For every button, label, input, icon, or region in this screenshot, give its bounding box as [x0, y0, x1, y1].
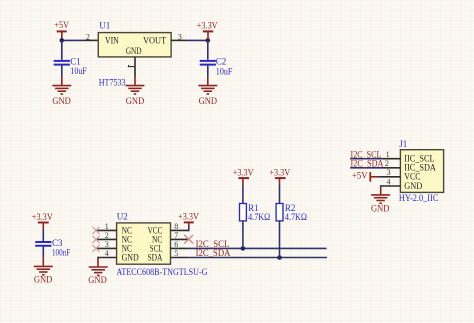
- svg-text:2: 2: [86, 32, 90, 41]
- svg-text:3: 3: [387, 168, 391, 177]
- no-connect X pin 2: [92, 236, 99, 243]
- svg-text:+3.3V: +3.3V: [233, 168, 254, 178]
- svg-text:HY-2.0_IIC: HY-2.0_IIC: [399, 193, 439, 203]
- pin 5 stub (U2 SDA): [171, 257, 189, 259]
- svg-text:GND: GND: [404, 181, 422, 191]
- svg-text:C2: C2: [216, 56, 227, 66]
- svg-text:10uF: 10uF: [216, 66, 233, 76]
- no-connect X pin 3: [92, 245, 99, 252]
- svg-text:1: 1: [386, 150, 390, 159]
- junction R2/SDA: [277, 255, 282, 260]
- wire U1 VOUT to +3.3V node: [171, 39, 187, 41]
- svg-text:SDA: SDA: [148, 252, 163, 262]
- wire net I2C_SCL (J1 pin1): [350, 158, 383, 160]
- svg-text:GND: GND: [52, 96, 71, 106]
- pin number 1 (U1 GND, rotated): [128, 65, 135, 67]
- connector J1 body: [400, 150, 443, 193]
- svg-text:GND: GND: [88, 275, 107, 285]
- wire +5V to J1 pin3: [378, 176, 383, 178]
- resistor R1: [240, 204, 247, 221]
- wire +3.3V to R2: [279, 184, 281, 203]
- wire J1 pin4 down: [380, 185, 382, 188]
- ground (C3): [34, 258, 53, 285]
- pin 1 stub (U2 NC): [97, 229, 116, 231]
- svg-text:2: 2: [385, 159, 389, 168]
- wire +5V node to U1 VIN: [62, 39, 83, 41]
- svg-text:+5V: +5V: [54, 20, 69, 30]
- wire net I2C_SDA: [189, 257, 327, 259]
- junction +5V/C1: [60, 38, 65, 43]
- pin 6 stub (U2 SCL): [171, 247, 189, 249]
- no-connect X pin 7: [184, 235, 193, 244]
- svg-text:10uF: 10uF: [70, 66, 87, 76]
- wire C1 to GND: [61, 65, 63, 77]
- pin 4 stub (J1 GND): [381, 185, 401, 187]
- svg-text:+3.3V: +3.3V: [32, 212, 53, 222]
- ground (C2): [198, 77, 217, 106]
- svg-text:7: 7: [174, 231, 178, 240]
- svg-text:3: 3: [105, 240, 109, 249]
- svg-text:+3.3V: +3.3V: [197, 20, 218, 30]
- pin 4 stub (U2 GND): [98, 257, 117, 259]
- power +3.3V (top): [197, 20, 218, 40]
- junction R1/SCL: [241, 246, 246, 251]
- svg-text:+3.3V: +3.3V: [178, 212, 199, 222]
- capacitor C3: [35, 242, 51, 246]
- power +3.3V (R2): [269, 168, 290, 185]
- svg-text:4.7KΩ: 4.7KΩ: [248, 212, 270, 222]
- wire net I2C_SDA (J1 pin2): [350, 167, 383, 169]
- wire R2 to SDA: [279, 221, 281, 258]
- svg-text:+3.3V: +3.3V: [269, 168, 290, 178]
- pin 2 stub (U2 NC): [97, 238, 116, 240]
- svg-text:HT7533: HT7533: [99, 78, 126, 88]
- capacitor C1: [54, 61, 70, 65]
- wire +3.3V to C3: [42, 229, 44, 241]
- wire C2 to GND: [207, 65, 209, 77]
- svg-text:100nF: 100nF: [52, 247, 70, 257]
- svg-text:U2: U2: [117, 212, 128, 222]
- power +5V (J1 pin3): [352, 171, 378, 182]
- wire C3 to GND: [42, 246, 44, 257]
- capacitor C2: [200, 61, 216, 65]
- pin 3 stub (U2 NC): [97, 247, 116, 249]
- power +5V (top left): [54, 20, 69, 40]
- wire +3.3V to R1: [242, 184, 244, 203]
- wire U2 pin4 to GND: [97, 257, 99, 259]
- ground (J1): [371, 187, 390, 214]
- svg-text:4: 4: [387, 177, 391, 186]
- wire R1 to SCL: [242, 221, 244, 249]
- power +3.3V (U2 pin8): [178, 212, 199, 227]
- wire U1 GND pin down: [134, 57, 136, 77]
- power +3.3V (R1): [233, 168, 254, 185]
- ground (C1): [52, 77, 71, 106]
- svg-text:+5V: +5V: [352, 171, 368, 181]
- junction +3.3V/C2: [206, 38, 211, 43]
- pin 8 stub (U2 VCC): [171, 229, 189, 231]
- svg-text:I2C_SDA: I2C_SDA: [196, 248, 231, 258]
- regulator U1 body: [98, 33, 171, 57]
- svg-text:ATECC608B-TNGTLSU-G: ATECC608B-TNGTLSU-G: [117, 267, 208, 277]
- svg-text:4: 4: [105, 249, 109, 258]
- resistor R2: [276, 204, 283, 221]
- IC U2 body: [117, 223, 171, 264]
- svg-text:J1: J1: [399, 139, 407, 149]
- svg-text:2: 2: [105, 231, 109, 240]
- svg-text:8: 8: [174, 222, 178, 231]
- svg-text:GND: GND: [126, 96, 145, 106]
- wire net I2C_SCL: [189, 247, 327, 249]
- svg-text:5: 5: [174, 249, 178, 258]
- svg-text:GND: GND: [126, 46, 142, 56]
- svg-text:VOUT: VOUT: [143, 36, 167, 46]
- svg-text:6: 6: [174, 240, 178, 249]
- svg-text:GND: GND: [199, 96, 218, 106]
- pin 7 stub (U2 NC): [171, 238, 189, 240]
- ground (U1): [126, 77, 145, 106]
- svg-text:GND: GND: [371, 204, 390, 214]
- power +3.3V (C3): [32, 212, 53, 229]
- svg-text:GND: GND: [122, 252, 139, 262]
- wire +5V node down to C1: [61, 40, 63, 59]
- ground (U2): [88, 258, 107, 285]
- svg-text:1: 1: [105, 222, 109, 231]
- svg-text:C1: C1: [70, 56, 81, 66]
- svg-text:GND: GND: [34, 275, 53, 285]
- no-connect X pin 1: [92, 227, 99, 234]
- wire U2 pin8 up to +3.3V: [188, 226, 190, 231]
- wire +3.3V node down to C2: [207, 40, 209, 59]
- svg-text:U1: U1: [99, 21, 110, 31]
- svg-text:4.7KΩ: 4.7KΩ: [285, 212, 307, 222]
- svg-text:VIN: VIN: [105, 36, 119, 46]
- svg-text:I2C_SDA: I2C_SDA: [351, 158, 384, 168]
